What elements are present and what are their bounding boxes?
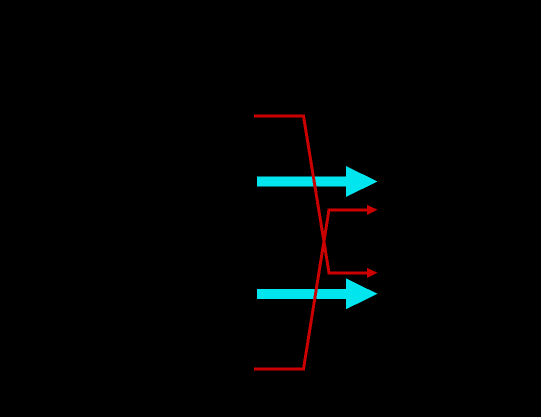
cyan arrow lower: head <box>346 278 378 309</box>
wire: bottom-left input line crossing up to upper-right output <box>254 210 368 369</box>
arrowhead: upper red output arrow <box>367 205 378 215</box>
cyan arrow lower: shaft <box>257 289 347 299</box>
arrowhead: lower red output arrow <box>367 268 378 278</box>
cyan arrow upper: head <box>346 166 378 197</box>
wire: top-left input line crossing down to lower-right output <box>254 116 368 273</box>
cyan arrow upper: shaft <box>257 177 347 187</box>
